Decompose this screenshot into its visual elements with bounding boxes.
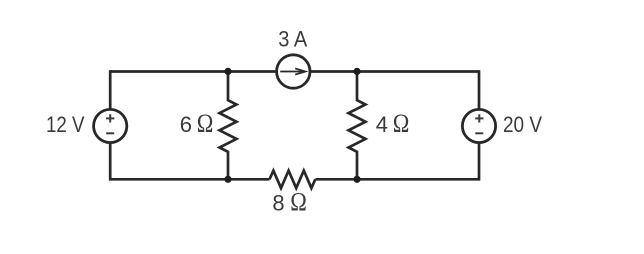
svg-text:20 V: 20 V [503, 112, 542, 137]
svg-text:Ω: Ω [197, 109, 214, 138]
wire bottom-left segment [109, 178, 270, 181]
voltage source V2 20 V circle [462, 109, 495, 142]
svg-text:8: 8 [272, 191, 284, 216]
wire top-right segment [310, 70, 479, 73]
voltage source V1 12 V circle [94, 109, 127, 142]
wire left rail upper [109, 70, 112, 109]
node A top of R1 [224, 68, 231, 75]
node B top of R2 [353, 68, 360, 75]
V1 minus sign [106, 132, 114, 134]
svg-text:12 V: 12 V [46, 112, 85, 137]
wire bottom-right segment [315, 178, 480, 181]
resistor R3 8 ohm [270, 171, 316, 189]
wire left rail lower [109, 142, 112, 180]
svg-text:4: 4 [376, 112, 388, 137]
current source I1 arrow [280, 68, 305, 74]
resistor R1 6 ohm [220, 72, 237, 180]
svg-text:Ω: Ω [393, 109, 410, 138]
svg-text:Ω: Ω [290, 188, 307, 217]
wire right rail lower [478, 142, 481, 180]
wire right rail upper [478, 70, 481, 109]
V2 plus sign [475, 114, 483, 122]
V2 minus sign [475, 132, 483, 134]
node C bottom of R1 [224, 176, 231, 183]
current source I1 3 A circle [277, 55, 310, 88]
svg-text:3 A: 3 A [278, 27, 307, 52]
resistor R2 4 ohm [349, 72, 366, 180]
node D bottom of R2 [353, 176, 360, 183]
svg-text:6: 6 [180, 112, 192, 137]
V1 plus sign [106, 114, 114, 122]
wire top-left segment [110, 70, 276, 73]
